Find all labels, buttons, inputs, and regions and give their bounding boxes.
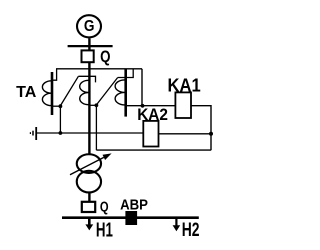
transformer T winding 1 xyxy=(77,154,101,173)
current transformer TA1 hook terminal xyxy=(52,70,57,81)
wire: right end of wire A down xyxy=(141,69,143,106)
H2 arrow head xyxy=(173,225,181,231)
bus H1 bar xyxy=(62,216,199,219)
relay KA2 xyxy=(143,121,158,147)
tap-changer arrow shaft xyxy=(70,157,104,174)
tap-changer arrow head xyxy=(103,153,112,160)
wire: transformer to Q2 xyxy=(88,193,90,202)
wire: TA1 down to ground wire xyxy=(59,106,61,133)
wire: TA2 bottom terminal xyxy=(89,104,97,106)
wire: diagonal TA1 to TA2 xyxy=(61,76,79,105)
wire: ground wire to KA2 left terminal xyxy=(36,132,143,134)
svg-text:Q: Q xyxy=(100,200,109,216)
H1 arrow shaft xyxy=(88,219,91,225)
wire: TA2 down to bottom return wire xyxy=(95,105,97,150)
junction node on right drop xyxy=(209,132,213,136)
svg-text:H1: H1 xyxy=(96,220,113,242)
bus bar under generator xyxy=(68,45,113,47)
wire A: secondary top wire xyxy=(56,68,142,70)
breaker Q1 xyxy=(82,50,94,62)
wire: KA2 right terminal xyxy=(159,133,212,135)
current transformer TA1 bar xyxy=(51,72,54,115)
svg-text:H2: H2 xyxy=(182,220,200,241)
svg-text:G: G xyxy=(84,18,95,35)
junction node at TA1 bottom xyxy=(59,104,63,108)
svg-text:KA2: KA2 xyxy=(137,106,168,124)
ABP switch (closed contact block) xyxy=(125,211,137,225)
svg-text:Q: Q xyxy=(100,48,111,66)
wire: generator to bus xyxy=(88,38,90,49)
svg-text:KA1: KA1 xyxy=(168,76,201,96)
transformer T winding 2 xyxy=(77,171,101,193)
breaker Q2 xyxy=(82,202,95,212)
wire: KA1 right terminal down xyxy=(191,106,211,151)
current transformer TA3 bar xyxy=(124,69,127,116)
wire: to KA1 left terminal xyxy=(142,105,175,107)
relay KA1 xyxy=(175,92,191,118)
ground symbol xyxy=(35,127,37,140)
svg-text:ABP: ABP xyxy=(120,197,148,214)
current transformer TA3 winding arcs xyxy=(115,80,124,105)
wire: TA1 bottom terminal xyxy=(52,105,60,107)
current transformer TA2 hook terminal xyxy=(78,76,95,82)
wire: main feeder (Q1 to transformer) xyxy=(88,63,90,154)
junction node at TA3 bottom xyxy=(141,104,145,108)
H2 arrow shaft xyxy=(175,219,177,226)
wire: bottom return wire xyxy=(96,149,211,151)
H1 arrow head xyxy=(85,224,93,230)
wire: diagonal TA2 to TA3 xyxy=(97,78,118,105)
current transformer TA2 winding arcs xyxy=(80,80,89,104)
wire: TA3 bottom terminal xyxy=(126,105,142,107)
junction node at TA2 bottom xyxy=(95,103,99,107)
current transformer TA3 hook terminal xyxy=(118,69,134,77)
generator G circle xyxy=(77,15,101,37)
junction node on ground wire xyxy=(59,131,63,135)
svg-text:TA: TA xyxy=(16,84,36,101)
current transformer TA1 winding arcs xyxy=(42,81,51,106)
